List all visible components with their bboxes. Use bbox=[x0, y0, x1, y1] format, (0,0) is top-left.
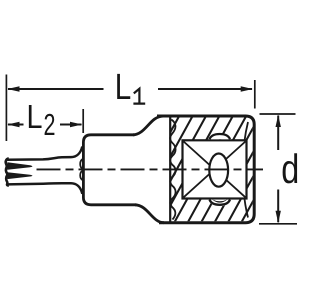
dimension L2 line bbox=[8, 124, 82, 126]
L2 right arrowhead bbox=[70, 122, 82, 127]
dimension L1 line left segment with arrow bbox=[8, 88, 252, 90]
bell curve top bbox=[133, 116, 163, 135]
svg-text:2: 2 bbox=[44, 108, 56, 142]
bit bottom edge bbox=[7, 183, 82, 194]
svg-text:L: L bbox=[115, 66, 132, 107]
section left wavy rim bbox=[170, 120, 175, 220]
L2 left arrowhead bbox=[7, 122, 19, 127]
L1 right arrowhead bbox=[241, 86, 253, 91]
svg-text:L: L bbox=[27, 99, 43, 136]
section right wavy rim bbox=[243, 122, 248, 218]
drive square (envelope) bbox=[183, 140, 247, 198]
socket neck outline bbox=[83, 135, 136, 205]
pin hole top bump bbox=[210, 134, 231, 139]
dimension d top extension line bbox=[260, 113, 296, 115]
neck rim scallop upper bbox=[80, 159, 83, 169]
neck rim scallop lower bbox=[80, 171, 83, 181]
d up arrowhead bbox=[276, 115, 281, 127]
L1 left arrowhead bbox=[7, 86, 19, 91]
L1/L2 common left tick bbox=[5, 75, 7, 142]
L1 right tick bbox=[254, 80, 256, 109]
torx bit: left star edge bbox=[6, 158, 9, 185]
torx flute wedge 2 bbox=[7, 172, 32, 179]
d down arrowhead bbox=[276, 211, 281, 223]
L2 right tick bbox=[82, 109, 84, 133]
pin hole bottom bump bbox=[210, 200, 231, 205]
centerline bbox=[37, 168, 264, 170]
svg-text:d: d bbox=[281, 146, 299, 192]
dimension d bottom extension line bbox=[259, 223, 297, 225]
hatching (cross-section fill) bbox=[119, 110, 303, 226]
d dimension vertical line bbox=[277, 116, 279, 223]
bit top edge bbox=[7, 147, 82, 160]
section cut line bbox=[169, 117, 171, 223]
drive square diagonal A bbox=[184, 142, 246, 198]
drive square diagonal B bbox=[184, 142, 246, 198]
bell curve bottom bbox=[135, 205, 164, 223]
torx flute wedge 1 bbox=[7, 162, 32, 169]
label L1 subscript 1 bbox=[133, 89, 145, 104]
pin hole ellipse bbox=[209, 154, 228, 187]
bottom bump dark crescent bbox=[212, 200, 227, 203]
socket body outline bbox=[157, 116, 254, 223]
